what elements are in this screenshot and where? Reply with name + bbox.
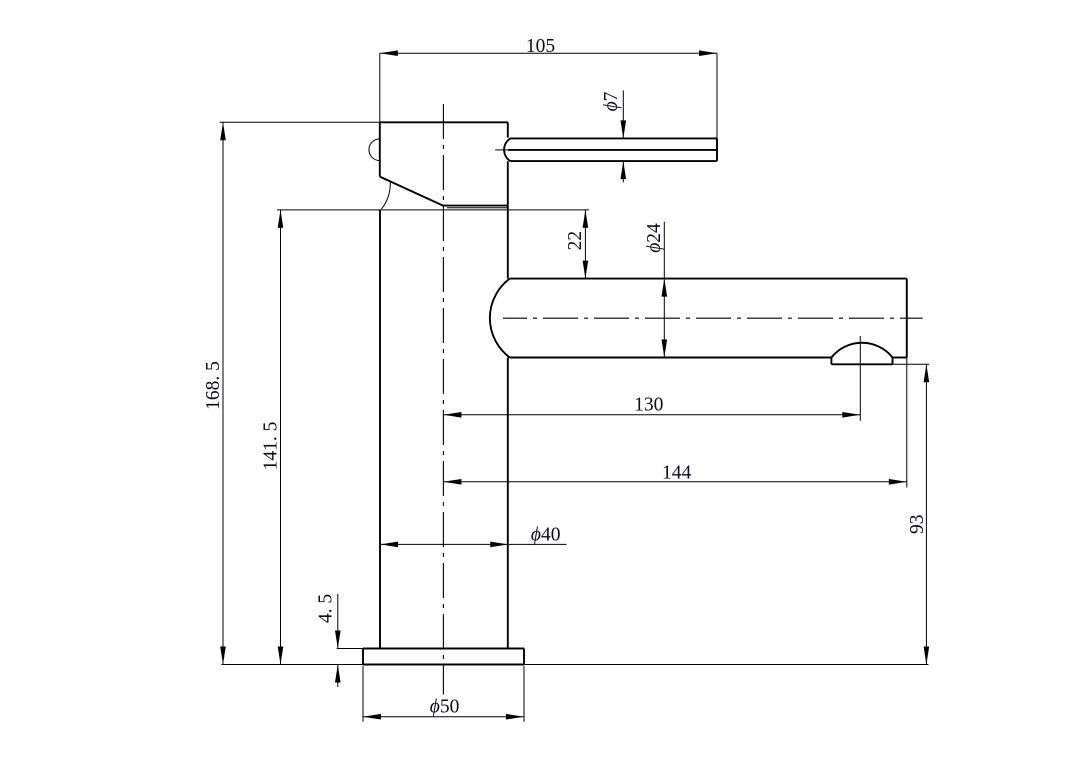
svg-text:ϕ24: ϕ24 <box>644 223 665 253</box>
svg-text:144: 144 <box>662 463 692 484</box>
svg-text:168. 5: 168. 5 <box>203 361 224 410</box>
svg-text:ϕ40: ϕ40 <box>531 524 561 545</box>
svg-text:ϕ50: ϕ50 <box>430 697 460 718</box>
svg-text:141. 5: 141. 5 <box>261 422 282 471</box>
svg-text:105: 105 <box>526 36 555 57</box>
svg-text:93: 93 <box>907 515 928 535</box>
svg-text:ϕ7: ϕ7 <box>601 91 622 111</box>
svg-text:130: 130 <box>634 394 663 415</box>
svg-text:4. 5: 4. 5 <box>316 594 337 623</box>
svg-text:22: 22 <box>565 231 586 251</box>
